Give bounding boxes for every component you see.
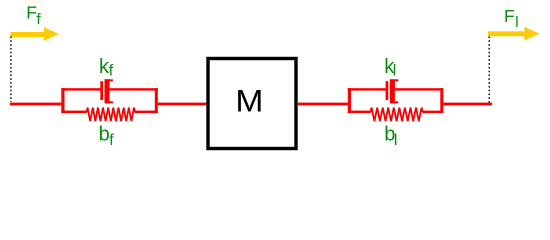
spring left (bottom rail with zigzag) [61,111,87,114]
damper left: cylinder thick bar [105,79,110,103]
dotted guide line right [488,37,490,103]
right block: left vertical bar [348,88,351,113]
svg-text:M: M [235,82,263,118]
svg-text:F: F [26,3,37,23]
svg-text:l: l [393,63,397,80]
label b_l [384,124,397,150]
label k_l [384,56,396,80]
mass box [208,59,296,149]
damper right: bottom cap [390,101,398,103]
label k_f [99,56,114,80]
damper left: piston thin bar [100,81,103,100]
damper left: top cap [105,79,113,81]
force label F_l [504,6,519,31]
right block: top rail right segment [395,88,443,90]
left block: left vertical bar [61,88,64,113]
svg-text:f: f [109,132,114,149]
left block: right vertical bar [155,88,158,113]
svg-text:f: f [109,63,114,80]
label b_f [99,124,115,150]
damper right: top cap [390,79,398,81]
right block: right vertical bar [440,88,443,113]
left block: top rail left segment [61,88,101,90]
force arrow F_f [11,27,60,41]
wire: mass to right block [297,103,348,106]
wire: left block to mass [158,103,208,106]
force arrow F_l [488,27,540,41]
svg-text:l: l [394,132,398,149]
damper right: piston thin bar [386,81,389,100]
force label F_f [26,3,41,28]
wire: right block to guide [443,103,492,106]
svg-text:l: l [515,14,518,31]
svg-text:b: b [99,124,110,146]
wire: left input [10,103,62,106]
spring right (bottom rail with zigzag) [348,111,371,114]
svg-text:F: F [504,6,515,26]
right block: top rail left segment [348,88,386,90]
damper left: bottom cap [105,101,113,103]
damper right: cylinder thick bar [390,79,395,103]
dotted guide line left [10,37,12,103]
left block: top rail right segment [110,88,158,90]
